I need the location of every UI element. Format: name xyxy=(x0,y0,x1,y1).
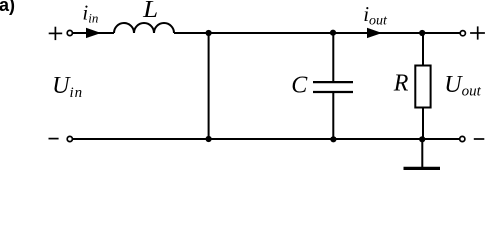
svg-text:C: C xyxy=(291,72,308,98)
capacitor C bottom plate xyxy=(313,91,353,93)
wire top-left (terminal to inductor) xyxy=(73,32,114,34)
junction resistor top xyxy=(419,30,425,36)
plus terminal top-right xyxy=(470,26,485,39)
minus terminal bottom-right xyxy=(474,138,485,140)
inductor L xyxy=(114,23,174,33)
svg-text:L: L xyxy=(142,0,158,23)
capacitor C top plate xyxy=(313,81,353,83)
svg-text:R: R xyxy=(393,70,409,96)
svg-text:a): a) xyxy=(0,0,15,15)
minus terminal bottom-left xyxy=(49,138,59,140)
svg-text:iin: iin xyxy=(82,1,98,26)
junction node bottom-middle xyxy=(206,136,212,142)
current arrow i_in xyxy=(86,28,101,38)
junction resistor bottom xyxy=(419,136,425,142)
plus terminal top-left xyxy=(49,27,63,40)
terminal circle bottom-right xyxy=(460,136,465,141)
resistor R box xyxy=(415,66,430,108)
wire middle vertical xyxy=(208,33,210,139)
capacitor C bottom lead xyxy=(332,93,334,139)
terminal circle top-left xyxy=(67,30,72,35)
ground bar xyxy=(404,167,441,170)
svg-text:iout: iout xyxy=(363,2,388,29)
wire top rail (inductor to right terminal) xyxy=(174,32,460,34)
junction node top-middle xyxy=(206,30,212,36)
svg-text:Uout: Uout xyxy=(444,72,481,100)
resistor R bottom lead xyxy=(422,108,424,140)
svg-text:Uin: Uin xyxy=(52,73,83,101)
ground lead xyxy=(421,139,423,167)
terminal circle top-right xyxy=(460,31,465,36)
terminal circle bottom-left xyxy=(67,136,72,141)
junction capacitor top xyxy=(330,30,336,36)
junction capacitor bottom xyxy=(330,136,336,142)
capacitor C top lead xyxy=(332,33,334,82)
current arrow i_out xyxy=(367,28,382,38)
wire bottom rail xyxy=(73,138,459,140)
resistor R top lead xyxy=(422,33,424,66)
